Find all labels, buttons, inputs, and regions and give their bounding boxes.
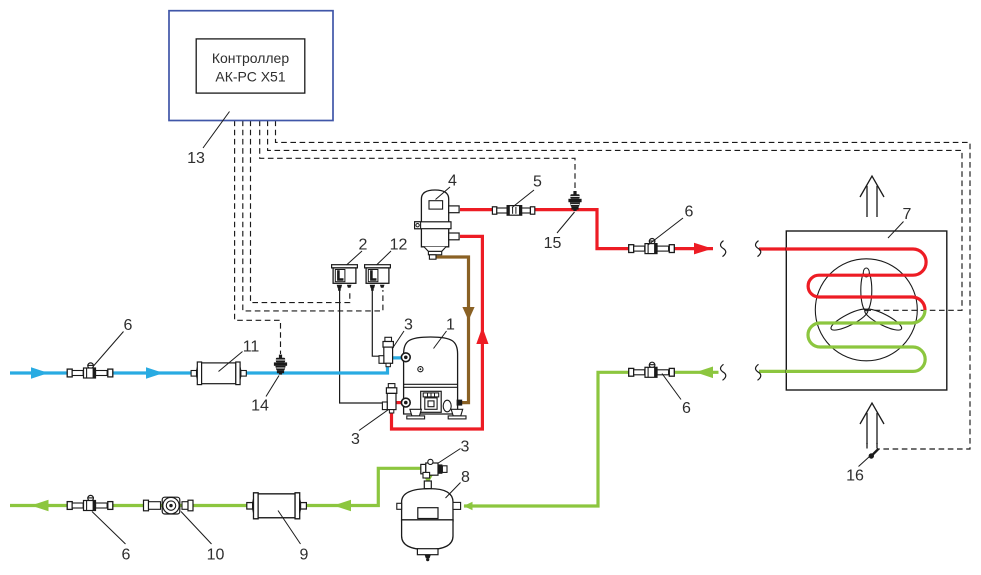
separator lower port bbox=[449, 233, 459, 240]
sensor 16 bbox=[869, 449, 879, 459]
receiver right port bbox=[453, 502, 461, 509]
wire dashed: controller to pressure switch 2 bbox=[251, 121, 350, 303]
label 3 discharge valve bbox=[351, 410, 388, 449]
label 2 bbox=[347, 237, 368, 266]
svg-text:АК-РС Х51: АК-РС Х51 bbox=[215, 69, 285, 85]
check valve 5 bbox=[492, 206, 534, 216]
flow arrow green left at line end bbox=[31, 500, 49, 512]
label 6 green bottom bbox=[92, 512, 131, 564]
label 3 suction valve bbox=[392, 317, 413, 350]
flow arrow blue left bbox=[31, 367, 49, 379]
wire dashed: controller to transmitter 15 bbox=[260, 121, 575, 192]
wire: liquid line receiver outlet (green) bbox=[10, 468, 422, 505]
filter drier 9 bbox=[247, 493, 307, 519]
svg-text:5: 5 bbox=[533, 174, 542, 191]
transmitter 14 on suction line bbox=[274, 355, 287, 375]
label 13 bbox=[187, 112, 229, 168]
pipe break marks red bbox=[721, 241, 726, 257]
wire: green drop from receiver valve into tank bbox=[426, 472, 429, 481]
receiver valve 3 bbox=[421, 459, 447, 478]
fan hub bbox=[863, 268, 869, 277]
service valve 3 on suction bbox=[379, 337, 393, 366]
flow arrow red right bbox=[694, 243, 713, 255]
label 8 bbox=[446, 469, 471, 498]
separator top port bbox=[449, 206, 459, 213]
fan circle bbox=[815, 259, 917, 361]
fan blade lower-left bbox=[829, 305, 871, 333]
ball valve 6 on suction line bbox=[67, 363, 113, 378]
svg-text:2: 2 bbox=[359, 237, 368, 254]
wire: capillary switch 2 to discharge service valve bbox=[340, 290, 382, 403]
svg-text:6: 6 bbox=[682, 400, 691, 417]
transmitter 15 on hot gas line bbox=[568, 191, 581, 211]
wire: suction line (blue) bbox=[10, 358, 402, 373]
flow arrow green left near filter 9 bbox=[334, 500, 352, 512]
fan blade up bbox=[861, 270, 872, 311]
receiver left stub bbox=[397, 503, 402, 509]
svg-text:12: 12 bbox=[390, 237, 408, 254]
label 3 receiver valve bbox=[438, 439, 470, 464]
flow arrow green into receiver bbox=[464, 502, 473, 510]
svg-text:11: 11 bbox=[243, 339, 260, 356]
condenser coil red bbox=[786, 249, 926, 310]
fan blade lower-right bbox=[862, 305, 904, 333]
pressure switch 2 bbox=[332, 265, 358, 291]
receiver 8 bbox=[397, 481, 461, 561]
svg-text:Контроллер: Контроллер bbox=[212, 50, 289, 66]
svg-text:16: 16 bbox=[846, 468, 864, 485]
pressure switch 12 bbox=[365, 265, 391, 291]
condenser coil green bbox=[786, 310, 925, 371]
svg-text:7: 7 bbox=[903, 206, 912, 223]
label 1 bbox=[434, 317, 456, 349]
label 12 bbox=[377, 237, 408, 266]
condenser box 7 bbox=[786, 231, 947, 390]
label 6 blue line bbox=[94, 317, 133, 366]
wire: capillary switch 12 to suction service valve bbox=[372, 290, 384, 356]
flow arrow green left (to receiver branch) bbox=[696, 367, 714, 379]
svg-text:15: 15 bbox=[544, 235, 562, 252]
receiver top fitting bbox=[424, 481, 431, 489]
wire dashed: controller to pressure switch 12 bbox=[243, 121, 383, 311]
label 14 bbox=[251, 376, 279, 415]
label 9 bbox=[278, 511, 309, 564]
svg-text:9: 9 bbox=[300, 547, 309, 564]
svg-text:3: 3 bbox=[351, 431, 360, 448]
service valve 3 on discharge bbox=[382, 384, 396, 413]
air flow arrow above condenser bbox=[860, 176, 884, 217]
label 6 green middle bbox=[662, 374, 691, 418]
wire: red pipe into condenser bbox=[759, 247, 786, 250]
label 10 bbox=[181, 512, 225, 564]
svg-text:10: 10 bbox=[207, 547, 225, 564]
svg-text:13: 13 bbox=[187, 150, 205, 167]
suction port bbox=[401, 353, 410, 362]
wire: oil return line (brown) bbox=[433, 257, 469, 403]
svg-text:6: 6 bbox=[122, 547, 131, 564]
ball valve 6 on liquid line to receiver bbox=[629, 362, 675, 377]
flow arrow blue right bbox=[146, 367, 164, 379]
label 4 bbox=[436, 173, 458, 200]
svg-text:3: 3 bbox=[404, 317, 413, 334]
filter drier 11 bbox=[191, 362, 246, 385]
ball valve 6 on liquid line outlet bbox=[67, 495, 113, 510]
ball valve 6 on hot gas line bbox=[629, 239, 675, 254]
svg-text:1: 1 bbox=[446, 317, 455, 334]
compressor 1 bbox=[401, 337, 466, 419]
wire: green pipe into condenser bbox=[759, 370, 786, 373]
label 6 top right bbox=[648, 204, 694, 246]
label 5 bbox=[512, 174, 542, 208]
wire: liquid line condenser to receiver (green) bbox=[464, 372, 719, 506]
svg-text:6: 6 bbox=[685, 204, 694, 221]
label 7 bbox=[888, 206, 912, 238]
svg-text:8: 8 bbox=[461, 469, 470, 486]
svg-text:14: 14 bbox=[251, 398, 269, 415]
label 11 bbox=[219, 339, 260, 372]
flow arrow red up bbox=[476, 327, 488, 344]
controller box bbox=[169, 11, 333, 121]
wire: discharge line compressor to separator (red) bbox=[396, 401, 406, 404]
air flow arrow below condenser bbox=[860, 403, 884, 444]
discharge port bbox=[401, 398, 410, 407]
label 16 bbox=[846, 457, 869, 485]
svg-text:3: 3 bbox=[461, 439, 470, 456]
pipe break marks green bbox=[721, 364, 726, 380]
wire dashed: controller to sensor 16 bbox=[276, 121, 971, 450]
oil separator 4 bbox=[415, 190, 460, 259]
wire: hot gas line separator to condenser (red) bbox=[460, 210, 713, 249]
label 15 bbox=[544, 212, 575, 252]
sight glass 10 bbox=[144, 497, 194, 514]
svg-text:4: 4 bbox=[448, 173, 457, 190]
flow arrow brown down bbox=[462, 307, 474, 321]
wire dashed: controller to transmitter 14 bbox=[235, 121, 281, 355]
wire dashed: controller to condenser fan bbox=[268, 121, 962, 311]
controller inner box bbox=[196, 39, 305, 93]
svg-text:6: 6 bbox=[124, 317, 133, 334]
oil return port bbox=[457, 400, 463, 406]
